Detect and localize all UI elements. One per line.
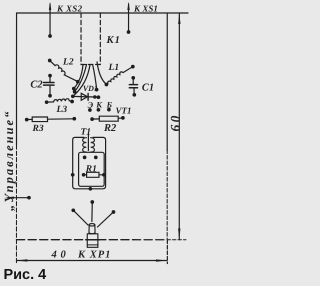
svg-text:Рис. 4: Рис. 4: [3, 267, 46, 283]
transistor VT1 pad emitter: [88, 108, 92, 112]
svg-text:C1: C1: [142, 83, 154, 94]
svg-text:К1: К1: [106, 35, 121, 46]
transformer T1 right winding: [91, 138, 95, 152]
node pad L3 left: [45, 100, 49, 104]
transformer T1 inner frame: [79, 152, 105, 186]
svg-text:„Управление“: „Управление“: [2, 110, 16, 211]
transistor VT1 pad collector: [97, 108, 101, 112]
board bottom edge dashed extension right: [167, 239, 186, 241]
svg-text:L3: L3: [56, 105, 68, 115]
node pad L2 right: [76, 80, 80, 84]
node pad L1 left: [105, 83, 109, 87]
resistor R1: [84, 172, 104, 177]
board outline right edge: [166, 13, 168, 150]
inductor L1: [106, 67, 132, 85]
node pad relay pin 2: [73, 90, 77, 94]
transformer T1 outer shell: [73, 137, 106, 188]
node pad control wire: [27, 196, 31, 200]
svg-text:L2: L2: [62, 57, 74, 67]
transformer T1 core line: [87, 134, 89, 150]
node pad C2 bottom: [48, 94, 52, 98]
svg-text:Э: Э: [88, 100, 94, 110]
node pad XS2 wire: [48, 34, 52, 38]
inductor L3: [47, 99, 72, 102]
wire relay pin 3: [73, 64, 90, 95]
connector XP1 body: [86, 224, 100, 248]
wire relay pin 5 to L1: [97, 62, 106, 84]
node pad XS1 wire: [127, 30, 131, 34]
transistor VT1 pad base: [107, 108, 111, 112]
node pad R3 right: [72, 117, 76, 121]
board outline bottom edge (dashed): [16, 239, 167, 241]
node pad R3 left: [25, 118, 29, 122]
control wire with arrow (Upravlenie): [5, 196, 29, 198]
node pad VD1 right end: [97, 95, 101, 99]
wire from XS2 arrow to pad: [49, 13, 51, 35]
board outline left edge: [15, 13, 17, 145]
node pad T1 winding left: [83, 156, 87, 160]
wire relay pin 4: [93, 64, 97, 89]
connector XP1 wire left: [74, 211, 88, 225]
node pad relay pin 4: [95, 88, 99, 92]
svg-text:К XS2: К XS2: [56, 3, 83, 13]
node pad R1 right: [102, 173, 106, 177]
node pad R2 right: [121, 116, 125, 120]
node pad T1 winding right: [94, 156, 98, 160]
node pad C1 top: [131, 76, 135, 80]
node pad T1 bottom: [89, 187, 93, 191]
wire relay pin 1: [74, 64, 83, 88]
node pad R2 left: [90, 117, 94, 121]
svg-text:R3: R3: [32, 124, 44, 134]
connector XP1 wire center: [91, 202, 93, 221]
resistor R3: [27, 117, 74, 122]
capacitor C2: [44, 76, 55, 96]
inductor L2: [50, 60, 77, 81]
arrow to XS2: [49, 2, 51, 13]
dimension line 40 (bottom): [16, 259, 167, 261]
svg-text:T1: T1: [81, 127, 92, 137]
svg-text:Б: Б: [106, 100, 113, 110]
wire relay pin 2: [75, 64, 87, 91]
node pad on T1 shell left: [71, 173, 75, 177]
svg-text:К XS1: К XS1: [133, 4, 158, 14]
node pad L1 right: [131, 65, 135, 69]
node pad relay pin 1: [72, 87, 76, 91]
svg-text:VD1: VD1: [83, 84, 98, 93]
svg-text:L1: L1: [108, 63, 120, 73]
node pad L2 left: [48, 59, 52, 63]
svg-text:40: 40: [50, 249, 69, 260]
connector XP1 wire right: [97, 212, 113, 227]
arrow to XS1: [127, 2, 129, 13]
diode VD1: [73, 93, 99, 100]
dimension line 60 (right side): [178, 13, 180, 240]
transformer T1 left winding: [83, 138, 87, 152]
svg-text:60: 60: [168, 113, 183, 131]
node pad VD1 anode: [71, 94, 75, 98]
node pad L3 right: [70, 100, 74, 104]
node pad R1 left: [82, 173, 86, 177]
node pad VD1 cathode wire: [93, 95, 96, 98]
svg-text:R2: R2: [103, 123, 117, 134]
svg-text:К ХР1: К ХР1: [77, 249, 111, 260]
node pad XP1 wire center: [90, 200, 94, 204]
svg-text:R1: R1: [85, 164, 97, 174]
svg-text:C2: C2: [30, 79, 43, 90]
node pad XP1 wire right: [112, 210, 116, 214]
node pad XP1 wire left: [71, 208, 75, 212]
board outline top edge: [17, 12, 189, 14]
svg-text:VT1: VT1: [116, 106, 132, 116]
node pad C2 top: [48, 74, 52, 78]
wire from XS1 arrow to pad: [128, 13, 130, 31]
capacitor C1: [129, 78, 137, 95]
board outline right edge dashed extension: [166, 240, 168, 264]
resistor R2: [92, 116, 123, 121]
relay K1 dashed outline: [81, 13, 100, 65]
node pad C1 bottom: [132, 93, 136, 97]
